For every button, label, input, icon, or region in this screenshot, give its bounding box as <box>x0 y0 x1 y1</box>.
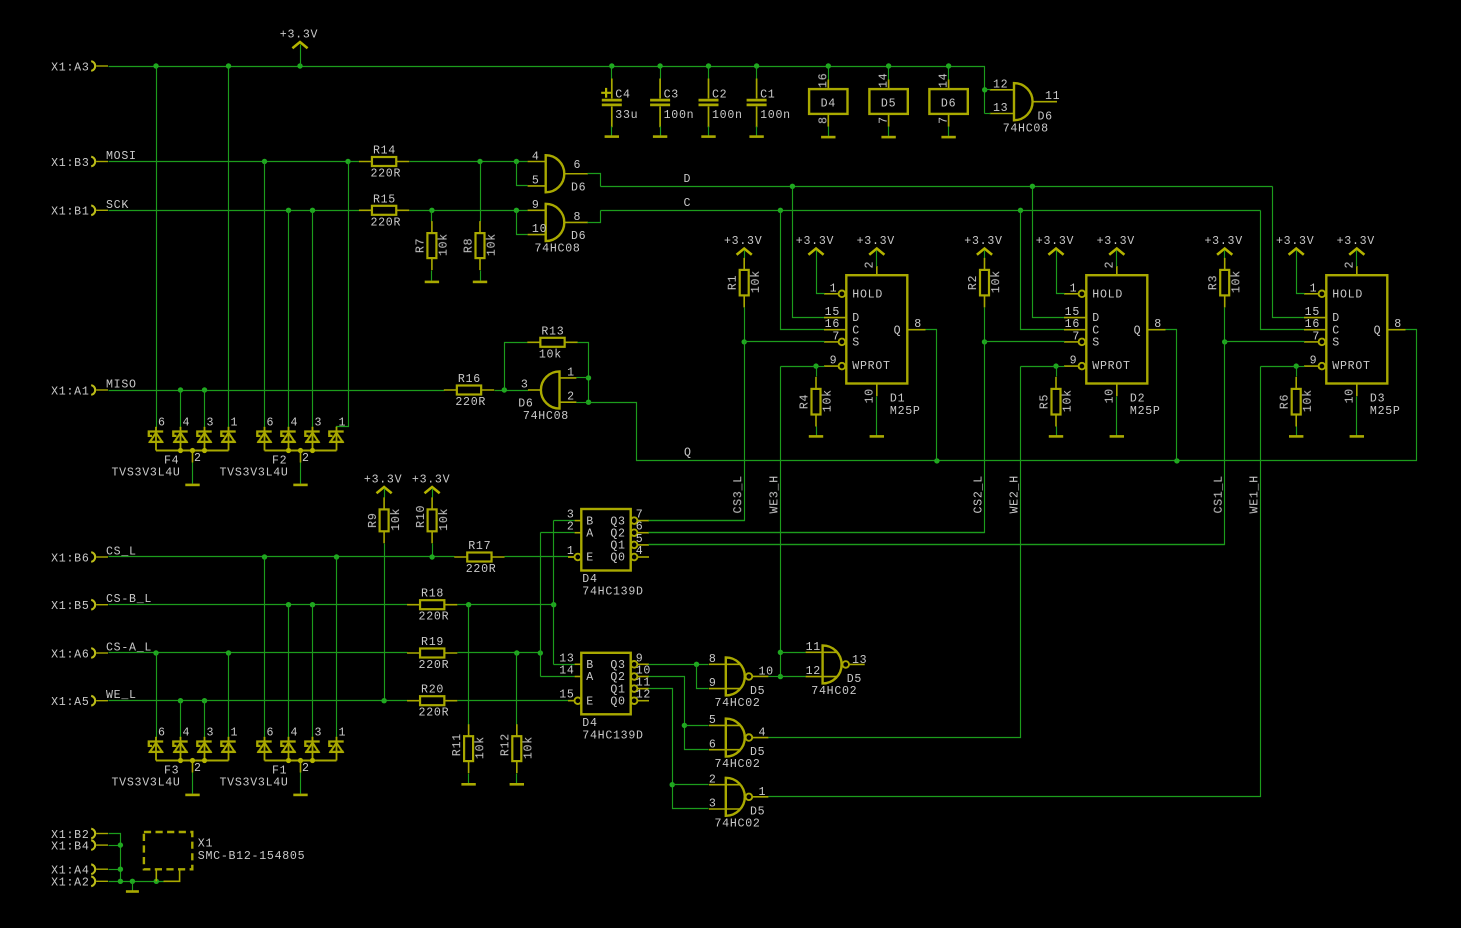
wire X1 ground lead <box>132 882 134 891</box>
svg-text:X1:A2: X1:A2 <box>51 877 89 890</box>
wire B-pins vertical <box>553 521 555 665</box>
capacitor C1 <box>756 79 758 128</box>
junction C/D2 <box>1018 208 1023 213</box>
junction S2 node <box>982 339 987 344</box>
junction CSA/Apins <box>538 650 543 655</box>
flash chip D2 M25P <box>1086 275 1147 383</box>
D2 pin 2 VCC <box>1116 266 1118 275</box>
junction CSA/F3d6 <box>153 650 158 655</box>
ground <box>461 783 475 786</box>
svg-text:8: 8 <box>817 116 830 124</box>
svg-text:D1: D1 <box>890 393 905 406</box>
svg-text:Q2: Q2 <box>610 671 625 684</box>
svg-text:D2: D2 <box>1130 393 1145 406</box>
svg-text:R2: R2 <box>967 275 980 290</box>
svg-text:74HC139D: 74HC139D <box>582 729 643 742</box>
wire D5 top lead <box>888 67 890 81</box>
D4 pin 9 <box>631 661 638 668</box>
junction X1 <box>118 867 123 872</box>
ground <box>1110 435 1124 438</box>
svg-text:1: 1 <box>1070 282 1078 295</box>
wire X1:A4 wire <box>109 869 121 871</box>
svg-text:2: 2 <box>302 452 310 465</box>
capacitor C2 <box>708 79 710 128</box>
TVS diode F3 pin 1 <box>228 736 230 739</box>
svg-text:12: 12 <box>636 689 651 702</box>
svg-text:X1:B6: X1:B6 <box>51 552 89 565</box>
resistor R2 <box>984 258 986 308</box>
svg-text:220R: 220R <box>455 396 486 409</box>
svg-text:4: 4 <box>183 416 191 429</box>
common cathode bus F1 <box>265 760 337 762</box>
junction WE/F3d3 <box>202 698 207 703</box>
wire R8 to ground <box>480 271 482 281</box>
wire D2 HOLD to +3.3V <box>1057 251 1065 294</box>
svg-text:10k: 10k <box>990 270 1003 293</box>
junction D/D2 <box>1030 184 1035 189</box>
wire C4 bottom lead <box>611 127 613 136</box>
power +3.3V <box>1109 249 1124 255</box>
svg-text:R10: R10 <box>415 505 428 528</box>
ground <box>1289 435 1303 438</box>
svg-text:R6: R6 <box>1279 394 1292 409</box>
wire D6 top lead <box>948 67 950 81</box>
power +3.3V <box>292 42 307 48</box>
wire SCK drop to F2 d4 <box>288 211 290 428</box>
D6d pin 12 <box>990 89 1014 91</box>
junction SCK/pin10 <box>514 208 519 213</box>
D5 pin 12 <box>806 676 837 678</box>
svg-text:R19: R19 <box>421 636 444 649</box>
junction F3 pin2 <box>190 758 195 763</box>
wire D2 Q to bus <box>1166 330 1177 461</box>
wire CS-A_L drop to F3 d1 <box>228 653 230 738</box>
junction MISO <box>202 387 207 392</box>
svg-text:C: C <box>684 197 692 210</box>
wire net Q <box>589 330 1417 461</box>
wire WE2_H vertical <box>769 367 1021 738</box>
wire MISO drop to F4 d3 <box>204 391 206 428</box>
svg-text:4: 4 <box>291 726 299 739</box>
wire S wire D3 <box>1225 341 1305 343</box>
wire WE3_H vertical <box>780 367 782 677</box>
svg-text:4: 4 <box>636 545 644 558</box>
svg-text:100n: 100n <box>760 109 791 122</box>
wire D2 pin10 to gnd <box>1116 397 1118 436</box>
svg-text:A: A <box>586 671 594 684</box>
D5 pin 1 output <box>752 796 768 798</box>
svg-text:11: 11 <box>1045 90 1060 103</box>
wire B1 feed <box>554 520 575 522</box>
svg-text:+3.3V: +3.3V <box>1205 235 1243 248</box>
D6b pin 10 <box>528 234 546 236</box>
svg-text:X1: X1 <box>198 838 213 851</box>
wire D1 Q to bus <box>926 330 937 461</box>
svg-text:R12: R12 <box>500 733 513 756</box>
svg-text:13: 13 <box>559 652 574 665</box>
wire CS-B_L to decoders <box>458 604 554 606</box>
svg-text:14: 14 <box>559 665 574 678</box>
svg-text:220R: 220R <box>370 216 401 229</box>
svg-text:6: 6 <box>267 726 275 739</box>
wire C to D2 pin16 <box>1021 211 1065 330</box>
junction Q3#2 split <box>694 662 699 667</box>
svg-text:7: 7 <box>878 116 891 124</box>
svg-text:+3.3V: +3.3V <box>412 473 450 486</box>
junction F4 bus d3 <box>202 448 207 453</box>
junction CSA/F3d1 <box>226 650 231 655</box>
svg-text:Q1: Q1 <box>610 683 625 696</box>
svg-text:R15: R15 <box>373 193 396 206</box>
wire F3 pin2 to ground <box>192 773 194 794</box>
junction NOR3 pin5 tee <box>682 723 687 728</box>
D1 pin 16 <box>824 329 846 331</box>
TVS diode F3 pin 3 <box>204 736 206 739</box>
svg-text:10: 10 <box>1104 388 1117 403</box>
wire net WE1_H <box>1261 366 1297 368</box>
svg-text:2: 2 <box>709 773 717 786</box>
svg-text:R3: R3 <box>1207 275 1220 290</box>
resistor R8 <box>479 221 481 270</box>
wire B2 feed <box>554 664 575 666</box>
D5 pin 6 <box>709 749 740 751</box>
D3 pin 9 WPROT <box>1304 365 1319 367</box>
wire +3.3V to R10 <box>432 489 434 498</box>
wire R9 to WE_L <box>384 544 386 701</box>
svg-text:6: 6 <box>267 416 275 429</box>
D3 pin 15 <box>1304 317 1326 319</box>
wire CS-A_L drop to F3 d6 <box>156 653 158 738</box>
ground <box>425 281 439 284</box>
wire +3.3V to R1 <box>744 251 746 259</box>
D6d pin 11 output (n.c.) <box>1033 101 1057 103</box>
svg-text:Q3: Q3 <box>610 659 625 672</box>
connector pin X1:B2 <box>91 829 95 839</box>
D4 pin 11 <box>631 685 638 692</box>
svg-text:+3.3V: +3.3V <box>857 235 895 248</box>
svg-text:4: 4 <box>291 416 299 429</box>
svg-text:3: 3 <box>207 416 215 429</box>
svg-text:16: 16 <box>1305 318 1320 331</box>
wire X1:B2 wire <box>109 834 121 882</box>
junction S1 node <box>742 339 747 344</box>
svg-text:D: D <box>1092 312 1100 325</box>
svg-text:CS2_L: CS2_L <box>973 475 986 513</box>
D5 pin 10 output <box>752 675 768 677</box>
junction MOSI <box>345 159 350 164</box>
power +3.3V <box>808 249 823 255</box>
D3 pin 8 Q <box>1387 329 1405 331</box>
junction R6 node <box>1294 363 1299 368</box>
svg-text:HOLD: HOLD <box>1092 289 1123 302</box>
svg-text:10: 10 <box>1344 388 1357 403</box>
wire R6 lead <box>1296 367 1298 377</box>
junction rail <box>754 63 759 68</box>
svg-text:16: 16 <box>825 318 840 331</box>
wire R5 lead <box>1056 367 1058 377</box>
wire D5 bottom lead <box>888 127 890 137</box>
D3 pin 16 <box>1304 329 1326 331</box>
wire net SCK after R15 <box>410 210 528 212</box>
svg-text:74HC139D: 74HC139D <box>582 586 643 599</box>
svg-text:1: 1 <box>759 786 767 799</box>
F1 pin 2 lead <box>300 761 302 773</box>
svg-text:1: 1 <box>231 416 239 429</box>
svg-text:S: S <box>852 337 860 350</box>
D2 pin 16 <box>1064 329 1086 331</box>
wire X1:A2 wire <box>109 881 165 883</box>
TVS diode F3 pin 4 <box>180 736 182 739</box>
svg-text:7: 7 <box>832 330 840 343</box>
D3 pin 1 HOLD <box>1304 293 1319 295</box>
wire CS-B_L drop to F1 d3 <box>312 605 314 738</box>
wire A-pins vertical <box>540 533 542 677</box>
wire MOSI to R8 <box>480 162 482 222</box>
svg-text:3: 3 <box>521 378 529 391</box>
svg-text:C: C <box>1332 324 1340 337</box>
D6a pin 4 <box>528 161 546 163</box>
wire C2 top lead <box>708 67 710 79</box>
ground <box>126 890 139 893</box>
svg-text:WE2_H: WE2_H <box>1009 475 1022 513</box>
D4 pin 14 A <box>575 676 582 678</box>
resistor R17 <box>454 556 504 558</box>
junction R13/pin1 <box>586 375 591 380</box>
power +3.3V <box>869 249 884 255</box>
junction CSA/R12 <box>514 650 519 655</box>
D4 pin 2 A <box>575 532 582 534</box>
power +3.3V <box>977 249 992 255</box>
svg-text:74HC08: 74HC08 <box>523 410 569 423</box>
wire C2 bottom lead <box>708 127 710 136</box>
svg-text:15: 15 <box>1305 306 1320 319</box>
junction Q/D2 <box>1174 458 1179 463</box>
D5 pin 4 output <box>752 737 768 739</box>
wire NOR1 pin9 feed <box>697 665 709 689</box>
wire gate6 out to D <box>588 174 601 187</box>
svg-text:3: 3 <box>315 416 323 429</box>
resistor R12 <box>516 724 518 773</box>
wire A1 feed <box>541 532 575 534</box>
wire net WE3_H <box>781 366 817 368</box>
connector pin X1:B1 <box>91 205 95 215</box>
svg-text:9: 9 <box>532 199 540 212</box>
wire CS_L drop to F1 d6 <box>264 557 266 738</box>
svg-text:SCK: SCK <box>106 199 129 212</box>
ground <box>653 135 667 138</box>
junction rail <box>657 63 662 68</box>
resistor R4 <box>815 377 817 427</box>
svg-text:14: 14 <box>938 73 951 88</box>
TVS diode F4 pin 1 <box>228 426 230 429</box>
D1 pin 7 <box>824 341 839 343</box>
wire rail drop to F4 d6 <box>156 67 158 428</box>
svg-text:8: 8 <box>574 211 582 224</box>
svg-text:X1:B3: X1:B3 <box>51 157 89 170</box>
wire C4 top lead <box>611 67 613 79</box>
svg-text:E: E <box>586 552 594 565</box>
svg-text:15: 15 <box>825 306 840 319</box>
svg-text:R16: R16 <box>458 373 481 386</box>
svg-text:10k: 10k <box>750 270 763 293</box>
AND gate D6 74HC08 (pins 9,10,8) <box>546 204 565 241</box>
junction rail <box>226 63 231 68</box>
svg-text:1: 1 <box>567 545 575 558</box>
wire CS_L drop to F1 d1 <box>336 557 338 738</box>
wire net +3.3V rail <box>109 67 985 114</box>
svg-text:11: 11 <box>636 677 651 690</box>
junction rail <box>946 63 951 68</box>
svg-text:HOLD: HOLD <box>852 289 883 302</box>
svg-text:WE1_H: WE1_H <box>1248 475 1261 513</box>
resistor R16 <box>444 389 494 391</box>
D5 pin 8 <box>709 663 740 665</box>
connector pin X1:A1 <box>91 385 95 395</box>
resistor R18 <box>407 604 457 606</box>
D4 pin 7 <box>631 517 638 524</box>
svg-text:1: 1 <box>1310 282 1318 295</box>
junction rail <box>153 63 158 68</box>
resistor R15 <box>359 209 409 211</box>
resistor R9 <box>383 497 385 543</box>
svg-text:TVS3V3L4U: TVS3V3L4U <box>112 467 181 480</box>
wire CS-A_L to decoders <box>458 652 541 654</box>
wire SCK drop to F2 d3 <box>312 211 314 428</box>
ground <box>749 135 763 138</box>
wire MOSI drop to F2 d1 <box>337 162 349 428</box>
svg-text:74HC08: 74HC08 <box>535 242 581 255</box>
connector pin X1:A2 <box>91 876 95 886</box>
svg-text:9: 9 <box>830 355 838 368</box>
D1 pin 1 HOLD <box>824 293 839 295</box>
ground <box>821 136 835 139</box>
TVS diode F4 pin 3 <box>204 426 206 429</box>
wire R4 to ground <box>816 427 818 436</box>
wire C to D1 pin16 <box>781 211 825 330</box>
svg-text:R1: R1 <box>727 275 740 290</box>
wire MISO drop to F4 d4 <box>180 391 182 428</box>
wire D3 pin10 to gnd <box>1356 397 1358 436</box>
svg-text:13: 13 <box>852 654 867 667</box>
power +3.3V <box>1217 249 1232 255</box>
svg-text:74HC08: 74HC08 <box>1003 122 1049 135</box>
svg-text:1: 1 <box>339 726 347 739</box>
wire F1 pin2 to ground <box>300 773 302 794</box>
svg-text:16: 16 <box>1065 318 1080 331</box>
NOR gate D5 74HC02 (pins 11,12,13) <box>823 645 842 683</box>
wire net CS1_L <box>649 342 1225 545</box>
wire D to D3 pin15 <box>1273 187 1305 318</box>
wire WE_L drop to F3 d3 <box>204 701 206 738</box>
svg-text:R18: R18 <box>421 588 444 601</box>
common cathode bus F3 <box>156 760 229 762</box>
svg-text:6: 6 <box>636 521 644 534</box>
wire WE_L to 139#2 E <box>458 700 569 702</box>
svg-text:X1:A1: X1:A1 <box>51 385 89 398</box>
svg-text:S: S <box>1092 337 1100 350</box>
D3 pin 7 <box>1304 341 1319 343</box>
svg-text:M25P: M25P <box>1130 405 1161 418</box>
D4 pin 10 <box>631 673 638 680</box>
svg-text:C3: C3 <box>664 89 679 102</box>
junction X1 gnd tap <box>130 879 135 884</box>
D3 pin 2 VCC <box>1356 266 1358 275</box>
svg-text:D5: D5 <box>881 97 896 110</box>
D6c pin 1 <box>560 377 577 379</box>
wire S wire D2 <box>985 341 1065 343</box>
ground <box>809 435 823 438</box>
svg-text:Q: Q <box>684 446 692 459</box>
wire MOSI drop to F2 d6 <box>264 162 266 428</box>
svg-text:WPROT: WPROT <box>1092 360 1130 373</box>
svg-text:9: 9 <box>636 652 644 665</box>
F4 pin 2 lead <box>192 451 194 463</box>
139#1 E pin lead <box>568 556 575 558</box>
svg-text:16: 16 <box>817 73 830 88</box>
wire R5 to ground <box>1056 427 1058 436</box>
svg-text:R7: R7 <box>415 238 428 253</box>
D2 pin 10 GND <box>1116 384 1118 397</box>
D5 pin 13 output (n.c.) <box>849 663 865 665</box>
svg-text:R4: R4 <box>799 394 812 409</box>
junction WE/R9 <box>381 698 386 703</box>
wire R12 drop <box>516 653 518 725</box>
svg-text:C4: C4 <box>615 89 630 102</box>
svg-text:10k: 10k <box>390 508 403 531</box>
D5 pin 11 <box>806 651 837 653</box>
junction SCK <box>310 208 315 213</box>
junction C/D1 <box>778 208 783 213</box>
D6d pin 13 <box>990 113 1014 115</box>
resistor-network box D4 <box>827 80 829 127</box>
junction F1 bus d4 <box>286 758 291 763</box>
svg-text:3: 3 <box>709 798 717 811</box>
wire net D <box>601 186 1273 188</box>
wire D1 pin10 to gnd <box>876 397 878 436</box>
svg-text:11: 11 <box>806 641 821 654</box>
ground <box>185 794 199 797</box>
connector pin X1:B5 <box>91 600 95 610</box>
connector pin X1:A4 <box>91 864 95 874</box>
NOR gate D5 74HC02 (pins 2,3,1) <box>726 778 745 816</box>
resistor R5 <box>1055 377 1057 427</box>
junction CSB/F1d4 <box>286 602 291 607</box>
svg-text:+3.3V: +3.3V <box>280 28 318 41</box>
svg-text:D6: D6 <box>571 230 586 243</box>
svg-text:1: 1 <box>830 282 838 295</box>
D5 pin 3 <box>709 808 740 810</box>
junction F2 pin2 <box>298 448 303 453</box>
resistor-network box D5 <box>888 80 890 127</box>
wire R3 to S node <box>1224 308 1226 342</box>
svg-text:R13: R13 <box>541 325 564 338</box>
svg-text:X1:A3: X1:A3 <box>51 61 89 74</box>
svg-text:+3.3V: +3.3V <box>796 235 834 248</box>
wire D2 VCC <box>1116 251 1118 267</box>
svg-text:6: 6 <box>158 416 166 429</box>
svg-text:1: 1 <box>567 366 575 379</box>
junction pin12 tee <box>982 87 987 92</box>
svg-text:B: B <box>586 515 594 528</box>
junction D/D1 <box>790 184 795 189</box>
svg-text:12: 12 <box>806 665 821 678</box>
junction MOSI/pin5 <box>514 159 519 164</box>
D2 pin 7 <box>1064 341 1079 343</box>
ground <box>1049 435 1063 438</box>
svg-text:10k: 10k <box>486 233 499 256</box>
wire net MOSI after R14 <box>410 161 528 163</box>
svg-text:+3.3V: +3.3V <box>1276 235 1314 248</box>
